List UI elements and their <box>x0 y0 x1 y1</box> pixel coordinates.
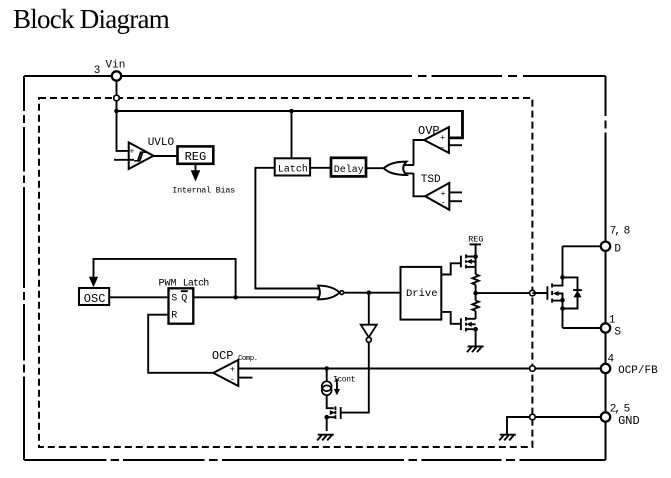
junction power mosfet source/body <box>560 298 565 303</box>
block Delay <box>331 158 366 177</box>
stub OVP minus reference <box>449 144 462 146</box>
wire rail to Latch top <box>291 111 293 158</box>
wire TSD output to OR gate <box>414 173 426 196</box>
inverter (triangle down with bubble) <box>361 325 377 343</box>
pin 2,5 GND <box>601 412 610 421</box>
junction Vin rail <box>114 109 119 114</box>
junction upper mosfet drain <box>473 254 478 259</box>
svg-text:GND: GND <box>618 414 640 428</box>
svg-text:3: 3 <box>94 65 101 77</box>
svg-text:OSC: OSC <box>84 292 106 306</box>
svg-text:Q: Q <box>181 294 187 305</box>
svg-text:OCP/FB: OCP/FB <box>618 365 658 377</box>
wire OCP comparator output to PWM latch R <box>148 315 213 373</box>
stub TSD minus reference <box>449 200 462 202</box>
diode body diode <box>563 277 582 308</box>
svg-text:+: + <box>440 133 445 143</box>
svg-text:D: D <box>614 244 621 256</box>
node Vin crossing chip boundary <box>114 95 120 101</box>
NOR gate PWM <box>318 286 344 300</box>
transistor Q1 upper driver mosfet <box>461 254 476 268</box>
svg-text:Delay: Delay <box>334 164 364 176</box>
wire OCP plus input / OCP-FB net <box>238 368 601 370</box>
svg-text:7, 8: 7, 8 <box>610 226 630 238</box>
junction drive output node <box>473 291 478 296</box>
wire upper resistor to output node <box>475 285 477 301</box>
wire Vin internal rail <box>117 110 463 112</box>
op-amp TSD comparator <box>421 174 450 210</box>
junction Icont tap <box>324 366 329 371</box>
svg-text:Vin: Vin <box>106 60 126 72</box>
block PWM Latch <box>159 278 210 324</box>
block Drive <box>401 267 442 320</box>
op-amp OCP comparator <box>212 349 258 386</box>
node OCP/FB crossing chip boundary <box>530 366 536 372</box>
wire drive to lower mosfet gate <box>441 312 461 324</box>
svg-text:S: S <box>171 294 177 305</box>
svg-text:OVP: OVP <box>418 124 440 138</box>
arrow feedback into OSC <box>89 277 98 287</box>
wire Latch output down to NOR gate <box>255 168 320 289</box>
svg-text:REG: REG <box>185 150 207 164</box>
wire feedback to OSC <box>94 259 236 297</box>
wire lower mosfet to ground <box>475 329 477 346</box>
node GND crossing chip boundary <box>530 414 536 420</box>
wire PWM latch Q out to NOR gate <box>193 296 320 298</box>
current source Icont <box>322 369 355 409</box>
transistor Q4 power mosfet <box>532 246 562 328</box>
wire Vin vertical drop <box>117 81 129 151</box>
pin 4 OCP/FB <box>601 364 610 373</box>
ground below drive stage <box>467 346 484 352</box>
svg-text:-: - <box>440 143 445 153</box>
wire OSC to PWM latch S <box>109 296 168 298</box>
block REG regulator <box>178 146 214 164</box>
svg-text:+: + <box>230 365 235 375</box>
svg-text:Internal Bias: Internal Bias <box>172 185 235 195</box>
wire drive to upper mosfet gate <box>441 263 461 274</box>
wire Delay to OR gate <box>366 167 384 169</box>
svg-text:PWM: PWM <box>159 279 177 290</box>
svg-text:UVLO: UVLO <box>148 137 175 149</box>
svg-text:Latch: Latch <box>278 164 308 176</box>
wire source to pin S <box>563 327 602 329</box>
junction Icont mosfet source <box>324 415 329 420</box>
svg-text:-: - <box>441 198 446 208</box>
ground below Icont mosfet <box>317 435 334 441</box>
chip boundary (dashed rectangle) <box>39 98 532 447</box>
pin 3 Vin <box>112 71 121 80</box>
transistor Q3 current limit mosfet (gate right) <box>327 406 341 431</box>
svg-text:S: S <box>614 327 621 339</box>
pin 7,8 D <box>601 242 610 251</box>
svg-text:Drive: Drive <box>406 288 438 300</box>
resistor lower <box>472 301 478 311</box>
outer package boundary (broken line frame with pins) <box>24 76 606 460</box>
op-amp UVLO comparator <box>114 137 175 169</box>
wire OVP output to OR gate <box>414 140 425 166</box>
wire GND net <box>507 417 601 435</box>
svg-text:Latch: Latch <box>183 278 209 290</box>
wire rail to OVP plus input <box>449 110 463 138</box>
svg-text:+: + <box>130 148 135 157</box>
junction rail Latch <box>289 109 294 114</box>
junction Q feedback tap <box>233 295 238 300</box>
svg-text:REG: REG <box>468 235 483 245</box>
junction drive node <box>367 290 372 295</box>
svg-text:1: 1 <box>609 315 616 327</box>
svg-text:Comp.: Comp. <box>238 355 258 363</box>
svg-text:TSD: TSD <box>421 174 441 186</box>
wire Latch to Delay <box>310 167 331 169</box>
stub TSD plus reference <box>449 191 462 193</box>
pin 1 S <box>601 323 610 332</box>
junction lower mosfet source <box>473 327 478 332</box>
svg-text:R: R <box>171 311 177 322</box>
junction power mosfet source/diode <box>560 306 565 311</box>
ground GND net <box>499 435 516 441</box>
wire UVLO to REG <box>154 155 178 157</box>
resistor upper <box>472 274 478 284</box>
junction power mosfet drain/diode <box>560 275 565 280</box>
OR gate shutdown (mirrored, output left) <box>384 162 414 175</box>
arrow Internal Bias output <box>195 164 197 171</box>
svg-text:OCP: OCP <box>212 349 234 363</box>
block Latch <box>275 158 310 175</box>
wire inverter to Icont mosfet gate <box>341 342 369 412</box>
wire NOR gate to Drive <box>344 292 401 294</box>
op-amp OVP comparator <box>418 124 449 153</box>
svg-text:Block Diagram: Block Diagram <box>13 4 170 34</box>
wire drive output to power mosfet gate <box>476 292 548 294</box>
svg-text:-: - <box>230 374 235 384</box>
svg-text:4: 4 <box>608 354 615 366</box>
wire lower resistor to lower mosfet <box>475 311 477 319</box>
stub OCP minus reference <box>238 377 252 379</box>
transistor Q2 lower driver mosfet <box>461 317 476 331</box>
wire drain to pin D <box>563 245 602 247</box>
node gate crossing chip boundary <box>530 290 536 296</box>
supply REG rail for drive stage <box>468 235 483 275</box>
wire node to inverter <box>368 293 370 325</box>
block OSC oscillator <box>79 288 109 306</box>
